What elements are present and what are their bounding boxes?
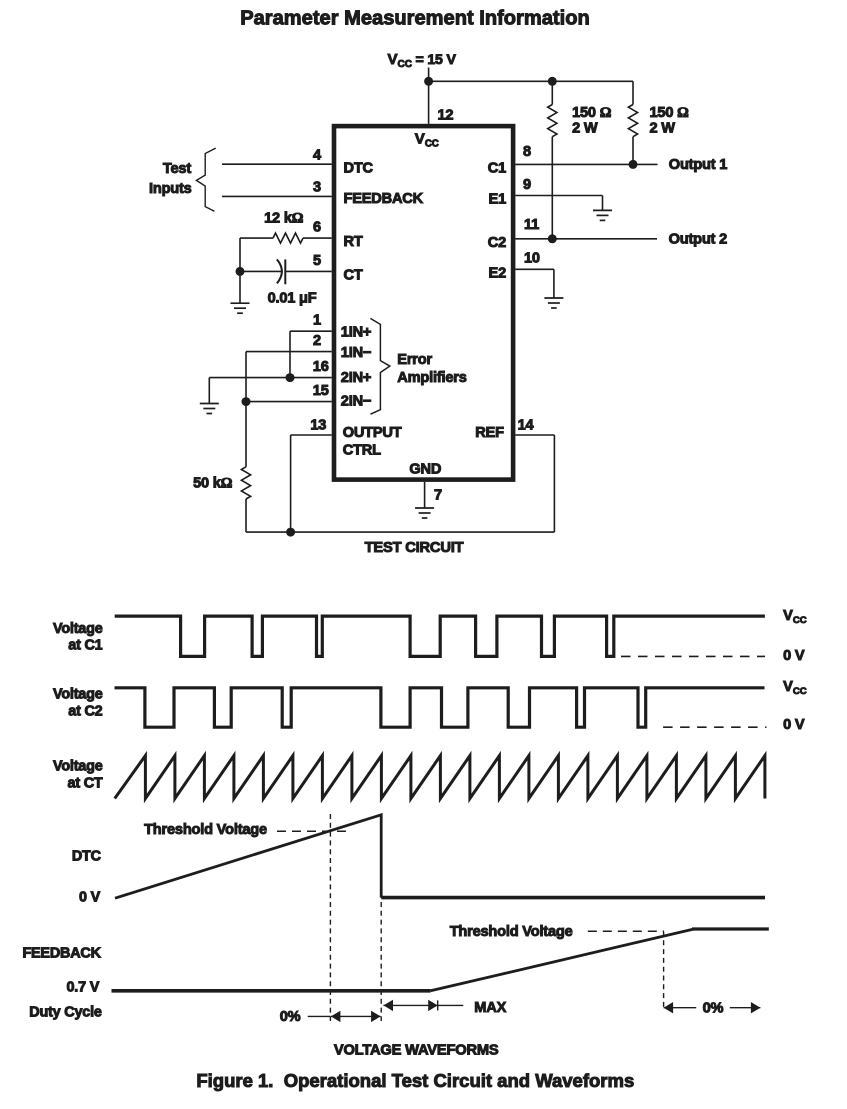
svg-text:5: 5	[313, 253, 321, 269]
svg-text:REF: REF	[475, 425, 504, 441]
svg-text:TEST CIRCUIT: TEST CIRCUIT	[365, 540, 464, 556]
svg-text:CT: CT	[344, 268, 363, 284]
svg-text:Output 2: Output 2	[669, 231, 727, 247]
svg-text:= 15 V: = 15 V	[416, 52, 457, 68]
svg-text:at CT: at CT	[68, 775, 103, 791]
svg-text:0 V: 0 V	[783, 648, 805, 664]
svg-text:C2: C2	[488, 235, 506, 251]
svg-text:0%: 0%	[280, 1009, 301, 1025]
svg-text:1IN+: 1IN+	[341, 325, 371, 341]
svg-text:Inputs: Inputs	[149, 181, 192, 197]
svg-text:2 W: 2 W	[650, 120, 676, 136]
svg-text:at C2: at C2	[68, 703, 102, 719]
svg-text:7: 7	[434, 488, 442, 504]
svg-text:2IN+: 2IN+	[341, 370, 371, 386]
svg-text:FEEDBACK: FEEDBACK	[22, 945, 101, 961]
svg-text:Duty Cycle: Duty Cycle	[29, 1005, 102, 1021]
svg-text:RT: RT	[344, 234, 363, 250]
svg-text:Output 1: Output 1	[669, 157, 727, 173]
svg-text:Test: Test	[163, 161, 191, 177]
svg-text:12 kΩ: 12 kΩ	[264, 210, 304, 226]
svg-text:2 W: 2 W	[572, 120, 598, 136]
svg-text:GND: GND	[409, 462, 441, 478]
svg-text:CTRL: CTRL	[343, 442, 381, 458]
svg-text:Threshold Voltage: Threshold Voltage	[144, 822, 267, 838]
svg-text:C1: C1	[488, 161, 506, 177]
svg-text:0.7 V: 0.7 V	[66, 980, 99, 996]
svg-text:11: 11	[524, 217, 539, 233]
svg-text:0 V: 0 V	[783, 717, 805, 733]
svg-text:DTC: DTC	[72, 849, 101, 865]
svg-text:150 Ω: 150 Ω	[650, 105, 690, 121]
svg-text:50 kΩ: 50 kΩ	[193, 476, 233, 492]
svg-text:E2: E2	[489, 265, 507, 281]
svg-text:13: 13	[310, 417, 326, 433]
svg-text:1IN−: 1IN−	[341, 345, 371, 361]
svg-text:3: 3	[313, 179, 321, 195]
svg-text:Voltage: Voltage	[53, 687, 103, 703]
svg-text:16: 16	[313, 359, 329, 375]
svg-text:15: 15	[313, 383, 329, 399]
svg-text:E1: E1	[489, 192, 507, 208]
svg-text:FEEDBACK: FEEDBACK	[344, 191, 424, 207]
svg-text:Error: Error	[397, 352, 432, 368]
svg-text:0 V: 0 V	[79, 890, 101, 906]
svg-text:2: 2	[313, 333, 321, 349]
svg-text:Threshold Voltage: Threshold Voltage	[450, 924, 573, 940]
svg-text:1: 1	[313, 313, 321, 329]
svg-text:6: 6	[313, 220, 321, 236]
svg-text:150 Ω: 150 Ω	[572, 105, 612, 121]
svg-text:2IN−: 2IN−	[341, 393, 371, 409]
svg-text:0%: 0%	[703, 1000, 724, 1016]
svg-text:10: 10	[524, 251, 540, 267]
svg-text:Voltage: Voltage	[53, 759, 103, 775]
svg-text:Voltage: Voltage	[53, 621, 103, 637]
svg-text:MAX: MAX	[474, 1000, 506, 1016]
svg-text:8: 8	[523, 144, 531, 160]
svg-text:9: 9	[523, 177, 531, 193]
svg-text:at C1: at C1	[68, 638, 102, 654]
svg-text:Parameter Measurement Informat: Parameter Measurement Information	[240, 8, 590, 30]
svg-text:VOLTAGE WAVEFORMS: VOLTAGE WAVEFORMS	[334, 1042, 499, 1058]
svg-text:4: 4	[313, 148, 322, 164]
svg-text:14: 14	[518, 417, 535, 433]
svg-text:OUTPUT: OUTPUT	[343, 425, 402, 441]
svg-text:Amplifiers: Amplifiers	[397, 370, 466, 386]
svg-text:12: 12	[438, 107, 454, 123]
svg-text:DTC: DTC	[344, 161, 374, 177]
svg-text:Figure 1. Operational Test Ci: Figure 1. Operational Test Circuit and W…	[196, 1070, 634, 1091]
svg-text:0.01 μF: 0.01 μF	[268, 290, 317, 306]
